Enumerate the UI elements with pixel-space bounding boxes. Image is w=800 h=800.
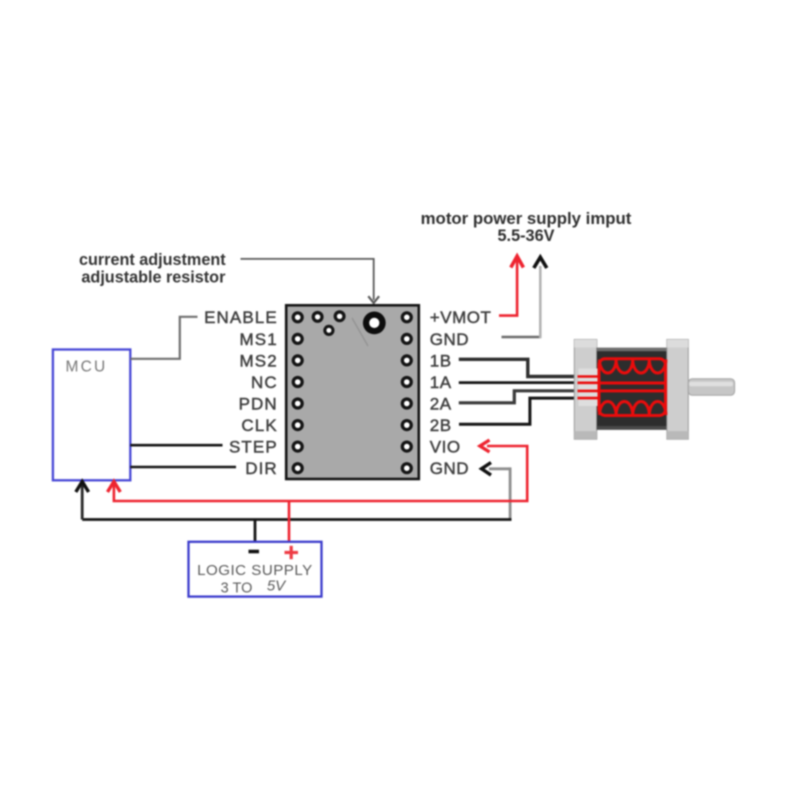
motor body bbox=[597, 348, 667, 430]
svg-text:1B: 1B bbox=[430, 351, 452, 370]
top coil L1 bbox=[600, 360, 666, 374]
pointer wire from label to potentiometer (arrow down) bbox=[241, 259, 380, 303]
auxiliary vias on chip top bbox=[312, 310, 346, 336]
wire GND to logic supply - and MCU (black/gray, arrows) bbox=[76, 463, 512, 520]
svg-text:NC: NC bbox=[251, 373, 278, 392]
svg-text:2B: 2B bbox=[430, 416, 452, 435]
wire 1B to motor bbox=[459, 359, 581, 376]
bottom coil L2 bbox=[600, 402, 666, 416]
svg-text:MCU: MCU bbox=[66, 359, 108, 376]
svg-text:STEP: STEP bbox=[229, 438, 278, 457]
svg-text:LOGIC SUPPLY: LOGIC SUPPLY bbox=[197, 562, 313, 579]
svg-text:MS2: MS2 bbox=[240, 351, 278, 370]
driver board U1 (gray chip) bbox=[286, 305, 419, 479]
svg-text:GND: GND bbox=[430, 330, 469, 349]
svg-text:motor power supply imput: motor power supply imput bbox=[421, 209, 632, 228]
red branch to logic supply + bbox=[288, 501, 291, 542]
svg-text:5V: 5V bbox=[267, 578, 287, 595]
wire MCU to ENABLE bbox=[130, 317, 197, 359]
svg-text:VIO: VIO bbox=[430, 438, 461, 457]
scratch mark on chip bbox=[352, 318, 368, 346]
svg-text:+VMOT: +VMOT bbox=[430, 308, 492, 327]
svg-text:MS1: MS1 bbox=[240, 330, 278, 349]
coil frame bbox=[599, 359, 666, 416]
wire +VMOT to motor power supply (red, arrow up) bbox=[499, 256, 523, 315]
wire 1A to motor bbox=[459, 381, 581, 384]
left pin header (pins 1-8) bbox=[292, 311, 304, 474]
svg-text:current adjustment: current adjustment bbox=[79, 251, 226, 269]
potentiometer RV1 (current adjustment) bbox=[363, 312, 386, 335]
right flange bbox=[667, 340, 688, 440]
wire 2B to motor bbox=[459, 398, 581, 424]
red lead stubs through flange bbox=[578, 375, 600, 378]
wire 2A to motor bbox=[459, 391, 581, 403]
svg-text:5.5-36V: 5.5-36V bbox=[497, 227, 554, 245]
svg-text:1A: 1A bbox=[430, 373, 452, 392]
motor winding diagram (red coils) bbox=[578, 359, 666, 416]
svg-text:PDN: PDN bbox=[239, 394, 278, 413]
right pin labels bbox=[430, 308, 492, 478]
plus terminal bbox=[285, 546, 299, 559]
shaft bbox=[688, 379, 734, 396]
svg-text:ENABLE: ENABLE bbox=[204, 308, 278, 327]
left flange bbox=[574, 340, 597, 440]
wire VIO to logic supply + and MCU (red, arrows) bbox=[108, 440, 528, 501]
svg-text:DIR: DIR bbox=[245, 459, 278, 478]
right pin header (pins 9-16) bbox=[401, 311, 413, 474]
stepper motor M1 bbox=[574, 340, 734, 440]
svg-text:3 TO: 3 TO bbox=[221, 581, 253, 597]
svg-text:GND: GND bbox=[430, 459, 469, 478]
svg-text:adjustable resistor: adjustable resistor bbox=[81, 268, 226, 286]
connector inset on flange bbox=[579, 369, 598, 407]
minus terminal bbox=[249, 550, 260, 554]
svg-text:CLK: CLK bbox=[241, 416, 277, 435]
black branch to logic supply - bbox=[254, 520, 257, 542]
wire MCU to DIR bbox=[130, 466, 236, 469]
wire MCU to STEP bbox=[130, 444, 222, 447]
MCU box bbox=[53, 350, 130, 481]
svg-text:2A: 2A bbox=[430, 394, 452, 413]
left pin labels bbox=[204, 308, 278, 478]
wire GND to motor power supply (gray, black arrow up) bbox=[502, 257, 547, 338]
logic supply box bbox=[189, 542, 322, 597]
middle winding leads bbox=[599, 382, 666, 385]
